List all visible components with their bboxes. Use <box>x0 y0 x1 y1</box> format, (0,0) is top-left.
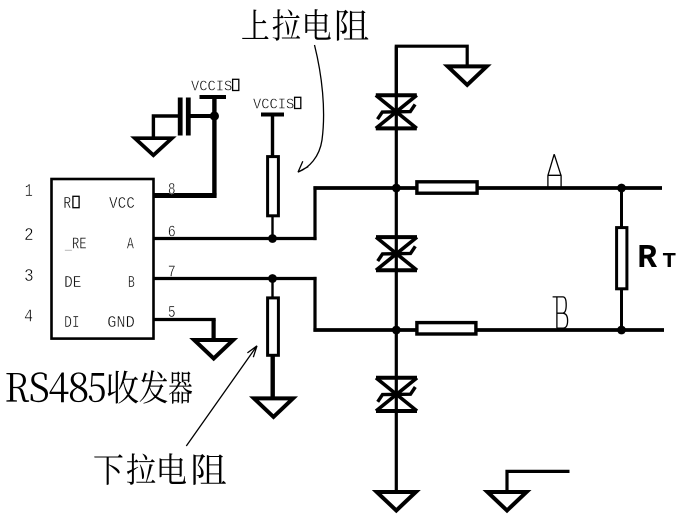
svg-text:T: T <box>662 251 676 274</box>
junction dot VCC rail / capacitor <box>210 111 219 120</box>
ground bottom center <box>377 492 416 511</box>
svg-text:VCC: VCC <box>109 194 135 213</box>
TVS diode D3 bottom <box>376 378 417 411</box>
label RS485 transceiver text RS485收发器 <box>6 370 192 403</box>
junction dot RT line B <box>617 326 626 335</box>
wire VCCISO power rail vertical <box>212 97 216 196</box>
junction dot TVS column line B <box>392 326 401 335</box>
wire bottom right ground stub <box>507 471 570 491</box>
ground under pull-down resistor <box>254 398 293 417</box>
wire pin 7 B from IC <box>154 277 317 280</box>
wire TVS rail top run to ground step <box>396 46 467 97</box>
svg-text:VCCIS: VCCIS <box>191 78 232 95</box>
ground top right <box>448 66 487 85</box>
power net VCCISO label 1 box glyph <box>233 79 239 90</box>
label pull-down resistor text 下拉电阻 <box>94 453 226 485</box>
svg-text:A: A <box>127 235 134 254</box>
svg-text:4: 4 <box>24 307 33 328</box>
wire pin 6 A from IC <box>154 237 317 240</box>
junction dot RT line A <box>617 184 626 193</box>
pin 1 name RO box glyph <box>73 196 79 207</box>
svg-text:5: 5 <box>168 303 176 322</box>
label pull-up resistor text 上拉电阻 <box>242 9 368 41</box>
arrow from 下拉电阻 to pull-down resistor <box>186 346 257 446</box>
svg-text:DI: DI <box>64 313 80 332</box>
svg-text:1: 1 <box>25 181 33 202</box>
wire TVS column vertical <box>395 46 398 491</box>
arrow from 上拉电阻 to pull-up resistor <box>298 45 324 172</box>
net label B on line B <box>553 297 568 328</box>
resistor pull-up <box>268 157 279 216</box>
resistor series line A <box>417 182 477 193</box>
svg-text:R: R <box>637 240 657 277</box>
svg-text:3: 3 <box>24 266 33 287</box>
svg-text:7: 7 <box>168 263 176 282</box>
ground under pin 5 <box>194 340 233 359</box>
junction dot pull-up / pin6 <box>268 234 277 243</box>
IC U1 RS485 transceiver body <box>52 179 154 339</box>
wire line B <box>313 328 664 332</box>
resistor series line B <box>417 323 476 334</box>
resistor RT termination <box>617 228 627 289</box>
svg-text:GND: GND <box>107 313 135 332</box>
wire pull-down stub from pin7 net <box>271 279 273 298</box>
wire RT bottom leg <box>620 289 623 330</box>
junction dot pull-down / pin7 <box>268 274 277 283</box>
net label A on line A <box>547 154 561 186</box>
svg-text:_RE: _RE <box>64 235 87 254</box>
wire riser pin6 to line A <box>313 186 316 240</box>
svg-text:2: 2 <box>24 225 33 246</box>
power port VCCISO bar 1 <box>200 95 227 99</box>
wire pull-down resistor to ground <box>271 356 275 397</box>
wire capacitor left plate to ground <box>153 116 179 138</box>
ground under capacitor <box>135 138 172 155</box>
wire capacitor right plate to rail <box>189 114 216 118</box>
svg-text:R: R <box>63 194 71 213</box>
wire riser pin7 to line B <box>313 277 316 332</box>
capacitor C1 plates <box>180 98 188 136</box>
wire pin5 drop to ground <box>212 320 216 339</box>
wire VCCISO bar 2 to pull-up resistor <box>271 115 274 158</box>
svg-text:VCCIS: VCCIS <box>253 96 294 113</box>
ground bottom right <box>488 492 527 511</box>
wire RT top leg <box>620 188 623 228</box>
junction dot TVS column line A <box>392 184 401 193</box>
TVS diode D2 middle <box>376 237 417 270</box>
power net VCCISO label 2 box glyph <box>295 97 301 108</box>
svg-text:DE: DE <box>64 273 81 292</box>
wire pin 5 GND to ground <box>154 318 216 321</box>
resistor pull-down <box>268 298 279 355</box>
svg-text:B: B <box>128 273 135 292</box>
power port VCCISO bar 2 <box>261 113 284 117</box>
wire line A <box>313 186 662 190</box>
svg-text:8: 8 <box>168 180 176 199</box>
TVS diode D1 top <box>376 95 417 128</box>
wire pull-up resistor to pin 6 net <box>271 216 273 239</box>
svg-text:6: 6 <box>168 222 176 241</box>
wire pin8 VCC to power rail <box>154 193 217 198</box>
